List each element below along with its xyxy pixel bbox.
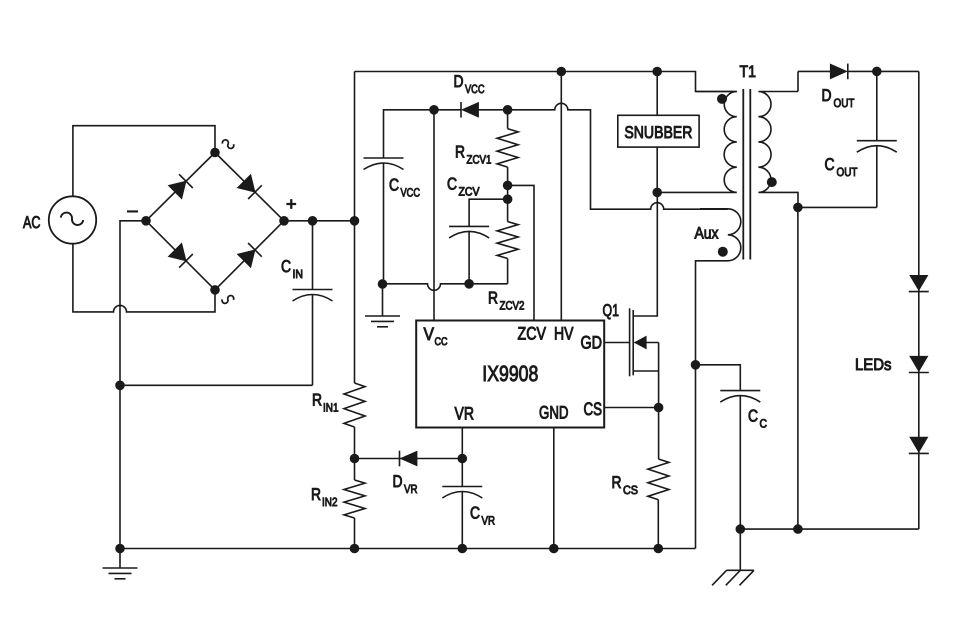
wire to C_ZCV [469,199,508,226]
svg-text:HV: HV [554,324,574,344]
wire D_OUT to LED rail [848,70,919,72]
svg-text:T1: T1 [740,63,757,81]
wire secondary ground line [740,528,919,530]
node rail at x=120 [115,544,125,554]
node D_OUT cathode [872,67,882,77]
node D_VCC cathode / Vcc wire [429,105,439,115]
bridge diode D2 (top node to right node) [237,175,261,200]
svg-text:VCC: VCC [465,82,485,96]
snubber box [618,115,699,147]
svg-text:D: D [393,472,403,491]
transformer primary winding [657,92,737,193]
wire HV pin vertical [560,72,562,321]
label R_IN2 [311,485,338,509]
ground symbol at C_VCC [365,284,400,327]
transistor Q1 drain lead [633,192,657,316]
svg-text:V: V [424,324,435,344]
svg-text:IN: IN [293,267,304,281]
LED D3 [909,356,929,372]
svg-text:ZCV1: ZCV1 [467,153,492,167]
diode D_VCC [461,102,479,118]
svg-text:R: R [488,289,498,308]
AC squiggle at top node [222,140,233,149]
bridge edge bottom-right [215,221,284,290]
op-amp U1 IX9908 box [416,321,604,428]
svg-text:+: + [286,194,297,214]
wire snubber bottom to primary node [656,147,658,192]
label R_IN1 [312,391,339,415]
diode D_OUT [830,64,848,80]
resistor R_CS [648,408,669,549]
wire secondary top to D_OUT [798,71,831,91]
diode D_VR [400,451,418,467]
svg-text:ZCV2: ZCV2 [500,299,525,313]
transistor Q1 gate bar [629,308,631,376]
node aux return C_C tap [691,360,701,370]
wire divider to D_VR to VR node [355,458,463,460]
wire bridge + node to left rail [284,220,355,222]
wire Vcc node to D_VCC [434,109,461,111]
svg-text:VCC: VCC [401,186,421,200]
svg-text:GD: GD [581,333,603,353]
transistor Q1 source lead [633,370,658,372]
label LEDs [855,356,892,374]
label C_ZCV [447,175,480,199]
wire bridge - node to x=120 down to ground rail [120,221,146,549]
node rail at R_CS [654,544,664,554]
aux phase dot [718,247,728,257]
label Aux [695,225,720,243]
node top rail HV tap [557,67,567,77]
wire VR pin down [461,428,463,487]
capacitor C_C [720,391,760,529]
node CS [654,403,664,413]
node top rail snubber tap [652,67,662,77]
capacitor C_VCC [364,158,404,284]
node VR pin wire at D_VR [458,454,468,464]
label SNUBBER [624,123,692,142]
svg-text:CS: CS [584,399,603,419]
label AC [23,213,41,232]
svg-text:AC: AC [23,213,41,232]
svg-text:C: C [748,407,758,426]
pin label GD [581,333,603,353]
node ZCV lower [503,194,513,204]
AC squiggle at bottom node [222,296,234,304]
svg-text:C: C [389,176,399,195]
node sec gnd at C_C [736,524,746,534]
wire to C_C [696,365,741,391]
label R_ZCV1 [455,143,492,167]
node C_ZCV bottom [464,279,474,289]
transistor Q1 body arrow [635,336,659,407]
label Q1 [603,301,620,320]
svg-text:OUT: OUT [837,165,859,179]
svg-text:R: R [612,473,622,492]
svg-text:LEDs: LEDs [855,356,892,374]
wire C_VCC top [384,110,435,158]
svg-text:CC: CC [435,336,448,348]
svg-text:IN2: IN2 [322,495,338,509]
svg-text:R: R [311,485,321,504]
wire R_IN2 to ground rail [354,518,356,549]
pin label Vcc [424,324,448,348]
svg-text:SNUBBER: SNUBBER [624,123,692,142]
bridge edge left-top [146,153,215,221]
svg-text:ZCV: ZCV [518,324,547,344]
pin label VR [455,404,475,424]
wire AC top to bridge [73,126,215,197]
label R_CS [612,473,639,497]
node C_VCC bottom [378,279,388,289]
svg-text:R: R [312,391,322,410]
node bridge top (AC ~) [210,148,220,158]
label D_VCC [454,72,485,96]
primary phase dot [717,94,727,104]
secondary phase dot [767,177,777,187]
AC source V1 circle [49,196,96,243]
node C_IN return at x=120 [115,381,125,391]
ground symbol bottom-left [103,549,138,579]
wire zcv ground return (hops over Vcc wire) [383,284,508,291]
svg-text:D: D [822,86,832,105]
wire D_VCC anode to aux top (hops over HV wire) [479,103,728,209]
transistor Q1 channel bar [632,310,634,375]
node R_ZCV1 top [503,105,513,115]
svg-text:OUT: OUT [834,96,856,110]
node rail at R_IN2 [350,544,360,554]
node main wire at C_IN tap [308,216,318,226]
wire Vcc pin vertical [433,110,435,321]
svg-text:C: C [470,504,480,523]
node secondary bottom [793,203,803,213]
capacitor C_VR [442,487,482,549]
svg-text:C: C [760,417,768,431]
label C_OUT [825,155,859,179]
label + (plus) [286,194,297,214]
resistor R_ZCV1 [497,110,518,199]
svg-text:C: C [281,257,291,276]
svg-text:IX9908: IX9908 [482,361,538,386]
label - (minus) [128,200,138,220]
svg-text:VR: VR [482,514,496,528]
svg-text:D: D [454,72,464,91]
resistor R_IN2 [344,480,365,518]
node rail at C_VR [458,544,468,554]
svg-text:C: C [447,175,457,194]
pin label CS [584,399,603,419]
bridge diode D3 (left node to bottom node) [168,243,192,268]
wire ZCV pin [508,185,534,320]
pin label GND [539,403,569,423]
transformer aux winding and return wire [696,209,741,549]
chassis ground [712,529,754,585]
wire GND pin to ground rail [553,428,555,549]
transformer T1 core [743,89,750,260]
node primary bottom / drain / snubber [652,188,662,198]
svg-text:CS: CS [623,483,638,497]
node bridge left (-) [141,216,151,226]
capacitor C_IN [120,221,333,385]
svg-text:ZCV: ZCV [459,185,480,199]
wire left rail [354,72,356,221]
bridge edge left-bottom [146,221,215,290]
capacitor C_OUT [798,71,897,207]
label C_VCC [389,176,420,200]
node rail at GND pin [549,544,559,554]
svg-text:–: – [128,200,138,220]
wire AC bottom to bridge (hop over x=120 wire) [73,244,215,312]
capacitor C_ZCV [449,226,489,283]
svg-text:VR: VR [404,482,418,496]
bridge diode D4 (bottom node to right node) [237,243,261,268]
pin label ZCV [518,324,547,344]
bridge edge top-right [215,153,284,221]
resistor R_IN1 [344,383,365,427]
label IX9908 [482,361,538,386]
transformer secondary winding [758,92,798,208]
pin label HV [554,324,574,344]
node sec gnd at return [793,524,803,534]
wire GD pin to gate [604,342,629,344]
wire bottom ground rail [120,548,696,550]
label D_VR [393,472,418,496]
bridge diode D1 (left node to top node) [168,174,192,199]
svg-text:GND: GND [539,403,569,423]
node bridge right (+) [279,216,289,226]
node main wire at left rail [350,216,360,226]
label R_ZCV2 [488,289,525,313]
LED D2 [909,275,929,291]
wire LED rail [918,71,920,529]
node R_IN divider / D_VR [350,454,360,464]
resistor R_ZCV2 [497,199,518,284]
svg-text:Aux: Aux [695,225,720,243]
label C_C [748,407,767,431]
node bridge bottom (AC ~) [210,285,220,295]
label C_VR [470,504,495,528]
svg-text:R: R [455,143,465,162]
svg-text:IN1: IN1 [323,401,339,415]
wire secondary return down [797,207,799,529]
wire snubber top [656,72,658,116]
wire R_IN1 to R_IN2 [354,427,356,480]
svg-text:C: C [825,155,835,174]
label D_OUT [822,86,856,110]
wire top rail [355,72,737,92]
label T1 [740,63,757,81]
wire left rail to R_IN1 [354,221,356,383]
svg-text:Q1: Q1 [603,301,620,320]
wire CS pin [604,407,658,409]
node ZCV upper [503,181,513,191]
label C_IN [281,257,303,281]
svg-text:VR: VR [455,404,475,424]
LED D4 [909,437,929,453]
